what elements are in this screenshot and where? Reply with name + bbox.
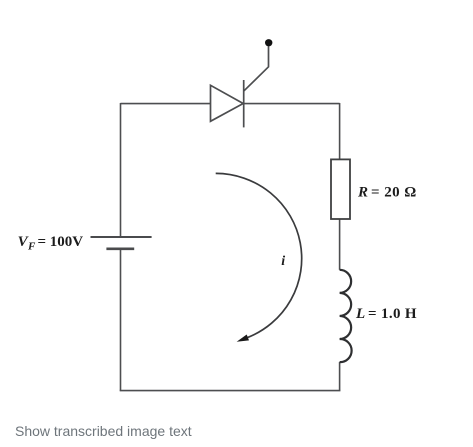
wire right vertical between resistor and inductor xyxy=(339,219,341,270)
wire left vertical lower xyxy=(120,249,122,391)
svg-text:= 100V: = 100V xyxy=(38,234,84,250)
wire right vertical upper xyxy=(339,103,341,159)
wire right vertical lower xyxy=(339,362,341,391)
svg-text:F: F xyxy=(27,241,36,253)
wire left vertical upper xyxy=(120,103,122,237)
svg-text:L: L xyxy=(355,306,365,322)
inductor L coil xyxy=(340,270,352,362)
thyristor cathode bar xyxy=(243,80,245,127)
svg-text:= 1.0 H: = 1.0 H xyxy=(368,306,417,322)
battery VF positive plate xyxy=(91,236,152,238)
footer caption xyxy=(15,423,192,439)
svg-text:i: i xyxy=(281,254,285,269)
current direction arc xyxy=(216,173,302,337)
wire top-left horizontal (anode side) xyxy=(121,103,211,105)
thyristor gate lead xyxy=(244,47,269,91)
wire bottom horizontal xyxy=(120,390,341,392)
wire top-right horizontal (cathode side) xyxy=(244,103,340,105)
svg-text:= 20 Ω: = 20 Ω xyxy=(371,185,417,201)
gate terminal dot xyxy=(265,39,272,46)
resistor R box xyxy=(331,159,350,219)
battery VF negative plate xyxy=(106,248,134,251)
thyristor anode triangle xyxy=(211,85,244,121)
current arrowhead xyxy=(235,334,248,344)
svg-text:R: R xyxy=(357,185,368,201)
